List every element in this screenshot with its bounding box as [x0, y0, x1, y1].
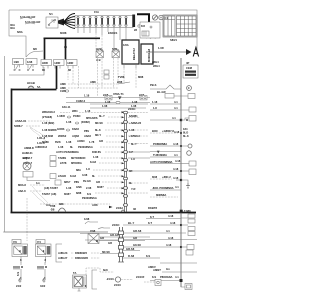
svg-text:1.8: 1.8	[131, 157, 135, 161]
svg-text:8n8: 8n8	[103, 268, 108, 272]
svg-text:.8O8. PO8N8N8A: .8O8. PO8N8N8A	[152, 186, 174, 190]
svg-text:4.1: 4.1	[172, 116, 176, 120]
svg-text:4P: 4P	[186, 61, 189, 65]
svg-text:P8S: P8S	[84, 129, 89, 133]
svg-text:8POAWS: 8POAWS	[86, 116, 98, 120]
svg-text:4.1: 4.1	[166, 229, 170, 233]
svg-text:PENO8NSA: PENO8NSA	[78, 145, 93, 149]
svg-text:8-G8: 8-G8	[90, 160, 96, 164]
svg-text:AQ83: AQ83	[72, 134, 80, 138]
motor 7/9 left	[12, 240, 28, 263]
lower mid rows	[18, 150, 123, 241]
ground wire left	[13, 262, 23, 288]
svg-text:1.08: 1.08	[132, 100, 138, 104]
svg-text:T.888: T.888	[184, 209, 191, 213]
svg-text:1.08: 1.08	[102, 104, 108, 108]
svg-text:8-G8: 8-G8	[70, 174, 76, 178]
svg-text:4/28: 4/28	[22, 156, 28, 160]
svg-text:15A: 15A	[94, 10, 99, 14]
component 7/9B with X	[88, 228, 150, 245]
svg-text:+G8807.8: +G8807.8	[162, 129, 174, 133]
lamp 4/2B left	[96, 47, 104, 96]
svg-text:8-S: 8-S	[16, 272, 20, 276]
switch S2	[26, 59, 37, 71]
motor 7/9 right	[36, 240, 52, 263]
connector wire to CEM	[165, 94, 195, 99]
svg-text:CW8: CW8	[60, 89, 66, 93]
svg-text:HDR: HDR	[42, 61, 48, 65]
svg-text:8O8?: 8O8?	[64, 192, 71, 196]
wire labels top left	[10, 15, 40, 34]
wires below fuses	[78, 27, 126, 51]
arrow A to next page	[146, 46, 199, 57]
fuse F2	[83, 16, 85, 26]
svg-text:24/3C: 24/3C	[128, 107, 135, 111]
svg-text:4.18: 4.18	[174, 130, 180, 134]
svg-text:TU8U8N8A: TU8U8N8A	[153, 153, 167, 157]
svg-text:1.08: 1.08	[66, 186, 72, 190]
svg-text:7/9: 7/9	[13, 240, 17, 244]
svg-text:Y-R: Y-R	[131, 187, 136, 191]
svg-text:TA: TA	[73, 271, 76, 275]
svg-text:1.08: 1.08	[66, 120, 72, 124]
svg-text:36: 36	[133, 207, 136, 211]
svg-text:HDR: HDR	[55, 61, 61, 65]
svg-text:8V-G8: 8V-G8	[83, 179, 91, 183]
svg-text:8L: 8L	[70, 145, 73, 149]
svg-text:4.18: 4.18	[168, 236, 174, 240]
ground wire right	[37, 262, 47, 288]
rows above T/A	[58, 251, 100, 260]
svg-text:GR: GR	[100, 236, 104, 240]
svg-text:8L-Y: 8L-Y	[99, 114, 105, 118]
svg-text:8L-8: 8L-8	[183, 134, 189, 138]
svg-text:1.8: 1.8	[153, 106, 157, 110]
svg-text:AM8: AM8	[60, 82, 66, 86]
svg-text:8-S: 8-S	[146, 254, 150, 258]
harness fan splice	[58, 14, 75, 29]
lamp 52M right	[112, 47, 120, 88]
svg-text:8LO: 8LO	[183, 131, 188, 135]
svg-text:4.1: 4.1	[174, 106, 178, 110]
mid wire rows	[35, 114, 123, 149]
node 37BA.T1	[113, 92, 124, 100]
svg-text:1/8A: 1/8A	[123, 43, 129, 47]
svg-text:4.18: 4.18	[175, 159, 181, 163]
svg-text:7/88: 7/88	[50, 204, 56, 208]
fuse F7	[113, 16, 115, 26]
svg-text:BL-Y: BL-Y	[128, 221, 134, 225]
svg-text:R-S8: R-S8	[128, 254, 135, 258]
svg-text:28G4: 28G4	[153, 64, 160, 68]
svg-text:C1: C1	[165, 16, 169, 20]
fuse row 15A	[75, 10, 133, 28]
right main bus	[180, 58, 182, 287]
svg-text:2.08: 2.08	[86, 186, 92, 190]
svg-text:TA8S? (A8): TA8S? (A8)	[42, 192, 56, 196]
svg-text:4.1: 4.1	[174, 153, 178, 157]
svg-text:AO8O: AO8O	[77, 139, 85, 143]
svg-text:5/1: 5/1	[49, 12, 53, 16]
svg-text:P8O8G8A: P8O8G8A	[160, 275, 172, 279]
fuse HCAB on bus	[27, 81, 40, 89]
svg-text:1.18 8O8: 1.18 8O8	[42, 134, 54, 138]
svg-text:88S?: 88S?	[64, 180, 71, 184]
svg-text:RELAY12: RELAY12	[132, 48, 136, 60]
wire row y96	[60, 89, 150, 100]
svg-text:3.08: 3.08	[82, 173, 88, 177]
svg-text:8L-8: 8L-8	[95, 128, 101, 132]
svg-text:4.18: 4.18	[173, 142, 179, 146]
svg-text:1m: 1m	[36, 181, 40, 185]
svg-text:K8A8: K8A8	[72, 127, 79, 131]
svg-text:HA88.21: HA88.21	[22, 151, 33, 155]
svg-text:8N8N8A: 8N8N8A	[156, 193, 166, 197]
bus junction arrows	[122, 111, 125, 194]
svg-text:A8827: A8827	[153, 268, 161, 272]
svg-text:8ETOD8OD: 8ETOD8OD	[71, 156, 85, 160]
svg-text:8R-S8: 8R-S8	[95, 121, 103, 125]
svg-text:24/3A: 24/3A	[116, 206, 123, 210]
connector bump SB on bottom bus	[58, 202, 66, 212]
svg-text:8/8: 8/8	[33, 47, 37, 51]
svg-text:1.18: 1.18	[152, 100, 158, 104]
svg-text:4.1: 4.1	[175, 275, 179, 279]
svg-text:CH82.2: CH82.2	[76, 99, 86, 103]
svg-text:PO8N8N8A: PO8N8N8A	[153, 142, 167, 146]
svg-text:GO8S: GO8S	[57, 127, 65, 131]
svg-text:W8G818.3: W8G818.3	[42, 110, 55, 114]
connector pair below lamps	[104, 70, 109, 79]
control unit box A	[122, 40, 139, 64]
svg-text:ENCES: ENCES	[108, 31, 117, 35]
battery symbol	[152, 15, 163, 20]
svg-text:AUTO PENO8N8A: AUTO PENO8N8A	[56, 150, 79, 154]
thick feed bar gamma top right	[137, 14, 149, 27]
switch S1	[13, 59, 24, 71]
svg-text:ASSA.81: ASSA.81	[15, 119, 27, 123]
circle connector on right bus	[187, 86, 192, 91]
svg-text:8O8: 8O8	[152, 175, 158, 179]
svg-text:4.1: 4.1	[175, 185, 179, 189]
svg-text:M88: M88	[138, 75, 144, 79]
svg-text:28G4: 28G4	[152, 60, 159, 64]
svg-text:1.18: 1.18	[84, 94, 90, 98]
svg-text:A B: A B	[96, 58, 101, 62]
svg-text:TA88S: TA88S	[58, 156, 66, 160]
svg-text:DKBT8: DKBT8	[148, 206, 157, 210]
svg-text:GR: GR	[133, 236, 137, 240]
svg-text:1.08: 1.08	[58, 145, 64, 149]
svg-text:A8A.8: A8A.8	[18, 189, 26, 193]
svg-text:8-T: 8-T	[148, 221, 152, 225]
svg-text:GR-S8: GR-S8	[126, 247, 135, 251]
svg-text:7/98: 7/98	[90, 229, 96, 233]
svg-text:4.18: 4.18	[173, 176, 179, 180]
svg-text:24/3C: 24/3C	[112, 223, 119, 227]
svg-text:8AM81: 8AM81	[129, 114, 138, 118]
pins below box A	[124, 64, 136, 68]
svg-text:6/8A: 6/8A	[17, 30, 23, 34]
lamp with motor circle	[22, 156, 50, 185]
fuse F3	[89, 16, 91, 26]
svg-text:8-S: 8-S	[87, 192, 91, 196]
splice CW8	[60, 80, 130, 90]
labels right of bus	[128, 113, 150, 194]
resistor wire PB-S	[150, 60, 181, 94]
svg-text:Gn: Gn	[166, 267, 170, 271]
svg-text:1.08: 1.08	[66, 140, 72, 144]
relay HDR2	[54, 60, 65, 69]
svg-text:C: C	[188, 86, 190, 90]
svg-text:8-S: 8-S	[152, 275, 156, 279]
bracket right of motors	[56, 244, 62, 262]
svg-text:2D8S2: 2D8S2	[58, 134, 67, 138]
svg-text:AO8: AO8	[92, 203, 98, 207]
svg-text:8PO8RA: 8PO8RA	[71, 161, 82, 165]
main left bus thick C	[11, 89, 197, 213]
bottom right rows	[148, 263, 197, 290]
svg-text:30A: 30A	[10, 26, 15, 30]
svg-text:1.08/R: 1.08/R	[57, 114, 65, 118]
svg-text:4.18: 4.18	[170, 221, 176, 225]
fuse F4	[95, 16, 97, 26]
svg-text:1.0R: 1.0R	[158, 46, 164, 50]
fuse table grid	[134, 15, 197, 42]
svg-text:1.78: 1.78	[89, 140, 95, 144]
switch panel sub box	[9, 67, 44, 75]
transformer T/A	[73, 268, 115, 291]
svg-text:A/88.23: A/88.23	[58, 251, 68, 255]
splice blob top right	[146, 31, 157, 39]
svg-text:1/98: 1/98	[27, 60, 33, 64]
control unit box B	[141, 44, 160, 68]
thick feeder down from relays	[56, 66, 58, 89]
svg-text:S8/21: S8/21	[170, 38, 178, 42]
svg-text:CEM: CEM	[186, 66, 193, 70]
svg-text:GN8: GN8	[76, 185, 82, 189]
svg-text:8/88: 8/88	[76, 191, 82, 195]
svg-text:6R-S8: 6R-S8	[102, 250, 110, 254]
svg-text:1/98: 1/98	[14, 60, 20, 64]
svg-text:5A: 5A	[37, 85, 40, 89]
bus connectors	[123, 111, 127, 206]
svg-text:18A.11: 18A.11	[62, 105, 71, 109]
svg-text:88A: 88A	[76, 168, 81, 172]
main supply bus top thick	[44, 31, 101, 60]
svg-text:W84: W84	[72, 109, 78, 113]
svg-text:4.18: 4.18	[173, 167, 179, 171]
svg-text:GR: GR	[99, 139, 103, 143]
wire row y101 with connector 24-8	[62, 101, 150, 109]
svg-text:6.0A GN-GR: 6.0A GN-GR	[20, 15, 35, 19]
connector 24/3A on bottom bus	[116, 206, 157, 212]
svg-text:85: 85	[42, 68, 45, 72]
svg-text:HCAB: HCAB	[27, 81, 35, 85]
svg-text:8L-Y: 8L-Y	[131, 142, 137, 146]
main fuse box 5/1	[46, 12, 58, 28]
svg-text:+88C.2: +88C.2	[162, 175, 171, 179]
fuse F6	[107, 16, 109, 26]
svg-text:8O8?: 8O8?	[97, 185, 104, 189]
svg-text:D8W02W2: D8W02W2	[75, 256, 88, 260]
page border frame	[5, 10, 198, 232]
svg-text:1.08 8O8R8: 1.08 8O8R8	[42, 128, 57, 132]
svg-text:A8A8: A8A8	[84, 134, 91, 138]
svg-text:G8-S8: G8-S8	[133, 243, 141, 247]
svg-text:8V/8: 8V/8	[55, 140, 61, 144]
svg-text:8O88: 8O88	[42, 140, 49, 144]
svg-text:D8080W2: D8080W2	[75, 251, 87, 255]
svg-text:52R8.7: 52R8.7	[14, 124, 23, 128]
right rows upper	[150, 100, 196, 148]
svg-text:2A/HD: 2A/HD	[58, 174, 66, 178]
svg-text:GR-S8: GR-S8	[133, 229, 142, 233]
svg-text:184: 184	[183, 127, 188, 131]
svg-text:4.18: 4.18	[166, 243, 172, 247]
ladder bus 24/3C lower	[112, 223, 124, 262]
svg-text:1/98: 1/98	[84, 217, 90, 221]
svg-text:86: 86	[68, 68, 71, 72]
svg-text:8C88: 8C88	[60, 31, 67, 35]
relay HDR3	[67, 60, 79, 89]
svg-text:PO8O: PO8O	[73, 114, 80, 118]
svg-text:(2THE8): (2THE8)	[42, 115, 52, 119]
svg-text:P8S: P8S	[74, 180, 79, 184]
lower frame line	[3, 231, 108, 233]
svg-text:8:8: 8:8	[141, 24, 145, 28]
svg-text:34/2: 34/2	[40, 284, 46, 288]
svg-text:(A8) TA88?: (A8) TA88?	[44, 186, 58, 190]
center bus 24/3C	[125, 107, 136, 212]
wire row y112	[42, 109, 121, 114]
relay HDR1	[41, 60, 52, 73]
bus bar end	[132, 15, 135, 28]
svg-text:8L: 8L	[92, 174, 95, 178]
svg-text:1.08: 1.08	[105, 100, 111, 104]
svg-text:MODULE8: MODULE8	[147, 48, 151, 62]
bracket lines CH82	[76, 99, 148, 108]
svg-text:1.08: 1.08	[93, 155, 99, 159]
svg-text:2AT8: 2AT8	[60, 161, 67, 165]
left label column	[14, 119, 50, 165]
svg-text:28: 28	[134, 28, 137, 32]
fuse F9	[125, 16, 127, 26]
svg-text:AM88.D: AM88.D	[24, 146, 34, 150]
svg-text:1.08 (882): 1.08 (882)	[42, 121, 54, 125]
small hook 1/9A	[84, 217, 98, 224]
svg-text:1.8: 1.8	[86, 167, 90, 171]
svg-text:AM8: AM8	[90, 80, 96, 84]
svg-text:PENO8NSA: PENO8NSA	[82, 196, 97, 200]
relay carrier box	[140, 22, 160, 38]
svg-text:24/10: 24/10	[114, 283, 121, 287]
svg-text:24/2: 24/2	[16, 284, 22, 288]
svg-text:+A88A.22: +A88A.22	[129, 121, 142, 125]
fuse F8	[119, 16, 121, 26]
svg-text:8R-Y: 8R-Y	[95, 133, 101, 137]
svg-text:A/88.27: A/88.27	[58, 256, 68, 260]
svg-text:378A.T1: 378A.T1	[113, 92, 124, 96]
svg-text:GR: GR	[108, 241, 112, 245]
svg-text:(DO82): (DO82)	[81, 120, 90, 124]
svg-text:4.18: 4.18	[168, 214, 174, 218]
svg-text:HDR: HDR	[68, 61, 74, 65]
CEM module label	[183, 61, 198, 78]
svg-text:7/4: 7/4	[37, 240, 41, 244]
svg-text:-24/10-: -24/10-	[106, 277, 115, 281]
right mid rows	[150, 151, 196, 213]
ground circle 24/10	[106, 275, 161, 287]
fuse F5	[101, 16, 103, 26]
svg-text:BOC: BOC	[152, 129, 158, 133]
svg-text:M8A.8: M8A.8	[18, 183, 26, 187]
svg-text:GR: GR	[96, 180, 100, 184]
svg-text:4.1: 4.1	[174, 100, 178, 104]
svg-text:-D8: -D8	[50, 208, 55, 212]
svg-text:D08 8S: D08 8S	[92, 150, 101, 154]
svg-text:TV88: TV88	[118, 75, 125, 79]
svg-text:24/10F: 24/10F	[136, 275, 145, 279]
lower wire rows crossing	[80, 213, 197, 258]
svg-text:PB-S: PB-S	[150, 83, 157, 87]
fuse F1	[77, 16, 79, 26]
svg-text:A/88OD.8: A/88OD.8	[35, 145, 47, 149]
svg-text:BL-GR: BL-GR	[157, 90, 166, 94]
